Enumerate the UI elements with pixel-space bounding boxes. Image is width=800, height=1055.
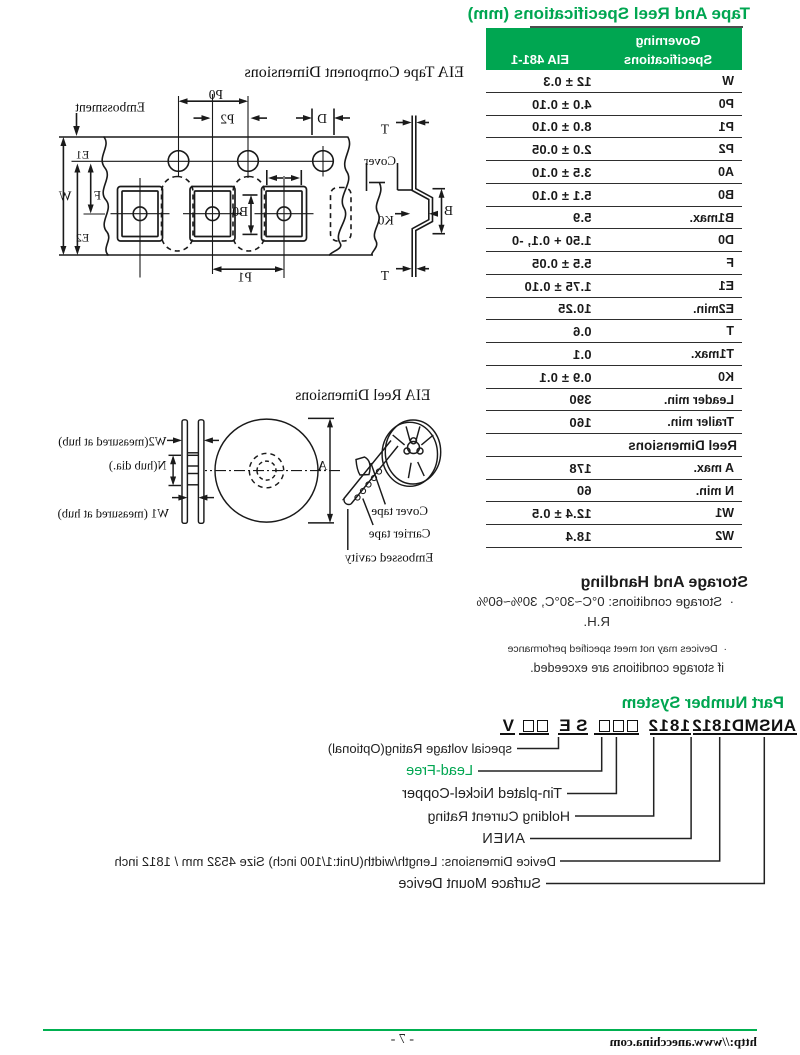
row Reel Dimensions section bbox=[486, 434, 742, 457]
svg-text:T: T bbox=[380, 122, 389, 137]
wire device dimensions bbox=[560, 737, 720, 861]
tape figure bbox=[25, 84, 470, 300]
row P2 bbox=[486, 138, 742, 161]
svg-text:E2: E2 bbox=[76, 231, 89, 245]
part number group ANSMD1812 bbox=[692, 716, 796, 736]
storage and handling heading bbox=[581, 574, 748, 592]
pocket 2 (x 587.5) bbox=[190, 187, 235, 242]
storage line 3 bbox=[508, 643, 727, 655]
wire special voltage bbox=[517, 737, 559, 749]
label lead-free bbox=[406, 763, 473, 779]
dashed stadium 1 bbox=[233, 177, 265, 252]
row P1 bbox=[486, 116, 742, 139]
wire lead-free bbox=[478, 737, 602, 771]
torn piece left edge bbox=[372, 183, 381, 255]
label tin-plated bbox=[402, 786, 562, 802]
part number group 1812 bbox=[647, 716, 690, 736]
sprocket centerline bbox=[72, 160, 335, 162]
svg-text:Cover tape: Cover tape bbox=[371, 503, 428, 518]
footer page number bbox=[391, 1032, 414, 1048]
label device dimensions bbox=[114, 854, 556, 869]
svg-text:Carrier tape: Carrier tape bbox=[369, 526, 431, 541]
reel figure bbox=[40, 400, 460, 572]
svg-text:B: B bbox=[444, 203, 453, 218]
pocket centerline extension bbox=[84, 213, 106, 215]
storage line 2 bbox=[583, 614, 610, 629]
peeled cover tape flap bbox=[356, 457, 370, 475]
dimension D ticks bbox=[333, 109, 335, 136]
reel figure caption bbox=[295, 387, 430, 405]
row W2 bbox=[486, 525, 742, 548]
svg-text:P1: P1 bbox=[238, 270, 252, 285]
hub center lines bbox=[187, 465, 198, 467]
center dash-dot line bbox=[205, 470, 340, 472]
row W1 bbox=[486, 502, 742, 525]
tape band cavities bbox=[371, 475, 376, 480]
row K0 bbox=[486, 366, 742, 389]
row A0 bbox=[486, 161, 742, 184]
reel front circle bbox=[215, 419, 318, 522]
3d reel spoke lines bbox=[393, 435, 405, 445]
pocket 3 (x 660) bbox=[118, 187, 163, 242]
row B0 bbox=[486, 184, 742, 207]
A extension lines bbox=[308, 417, 334, 419]
storage line 1 bbox=[476, 594, 734, 609]
row W bbox=[486, 70, 742, 93]
tape top edge bbox=[103, 136, 348, 138]
dimension B0 bbox=[250, 198, 252, 233]
spec table bbox=[486, 28, 742, 548]
row Trailer min bbox=[486, 411, 742, 434]
tape band cover line bbox=[343, 443, 390, 500]
dashed stadium 2 bbox=[162, 177, 194, 252]
tape left tear edge bbox=[329, 137, 350, 256]
part number group V bbox=[503, 716, 514, 736]
dimension F bbox=[90, 166, 92, 211]
svg-text:K0: K0 bbox=[378, 213, 394, 228]
part number connector lines bbox=[320, 700, 800, 900]
T bottom arrows bbox=[419, 268, 429, 270]
svg-text:E1: E1 bbox=[76, 147, 89, 161]
torn piece top edge bbox=[369, 182, 385, 184]
dimension A0 ticks bbox=[300, 170, 302, 185]
cross-section outer wall bbox=[416, 137, 433, 257]
footer url bbox=[610, 1034, 757, 1050]
W extension lines bbox=[59, 136, 103, 138]
pocket 2 long centerline bbox=[212, 94, 214, 274]
3d reel hub clover bbox=[408, 442, 420, 454]
W2 arrows bbox=[207, 439, 220, 441]
tape right jagged edge bbox=[102, 137, 109, 256]
leader cover tape bbox=[371, 463, 385, 504]
svg-text:W2(measured at hub): W2(measured at hub) bbox=[58, 435, 166, 449]
row F bbox=[486, 252, 742, 275]
dimension D arrows bbox=[337, 117, 351, 119]
wire tin-plated bbox=[567, 737, 616, 794]
part number group SE bbox=[554, 716, 588, 736]
side view flange 1 bbox=[198, 420, 204, 524]
sprocket hole 1 bbox=[313, 151, 334, 172]
T bottom ticks bbox=[415, 256, 417, 277]
svg-text:A: A bbox=[317, 459, 328, 474]
row Leader min bbox=[486, 389, 742, 412]
dashed partial pocket on torn piece bbox=[331, 188, 352, 242]
row B1max bbox=[486, 207, 742, 230]
leader carrier tape bbox=[363, 499, 373, 526]
tape figure caption bbox=[245, 64, 464, 82]
title underline bbox=[530, 26, 743, 28]
svg-text:Embossment: Embossment bbox=[75, 100, 145, 115]
wire surface mount bbox=[546, 737, 764, 884]
tape band end cap bbox=[344, 499, 351, 505]
row T bbox=[486, 320, 742, 343]
part number group box2 bbox=[523, 720, 549, 733]
dimension A bbox=[329, 421, 331, 521]
dimension P1 bbox=[215, 268, 283, 270]
embossment arrow bbox=[76, 113, 78, 128]
svg-text:Embossed cavity: Embossed cavity bbox=[344, 550, 433, 565]
label special voltage bbox=[328, 741, 512, 756]
svg-text:B0: B0 bbox=[232, 204, 248, 219]
tape band edge top bbox=[344, 441, 391, 499]
dimension K0 arrows bbox=[395, 213, 408, 215]
dimension P0 bbox=[181, 100, 247, 102]
svg-text:W: W bbox=[59, 189, 72, 204]
tape band edge bottom bbox=[351, 446, 398, 504]
svg-text:Cover: Cover bbox=[364, 153, 396, 168]
row P0 bbox=[486, 93, 742, 116]
pocket 1 (x 516) bbox=[262, 187, 307, 242]
label holding current bbox=[428, 808, 570, 824]
row E2min bbox=[486, 298, 742, 321]
label surface mount bbox=[398, 876, 541, 892]
dimension B bbox=[433, 188, 446, 190]
hub top lines bbox=[187, 452, 198, 454]
T top arrows bbox=[419, 122, 429, 124]
label anen bbox=[482, 831, 526, 847]
hub bottom line bbox=[187, 484, 198, 486]
wire anen bbox=[530, 737, 691, 839]
page title: Tape And Reel Specifications (mm) bbox=[468, 4, 750, 24]
W1 arrows bbox=[201, 497, 214, 499]
svg-text:F: F bbox=[94, 189, 101, 203]
dimension N bbox=[172, 458, 174, 484]
svg-text:D: D bbox=[317, 111, 327, 126]
wire holding current bbox=[575, 737, 654, 816]
cover bracket bbox=[397, 163, 399, 190]
row T1max bbox=[486, 343, 742, 366]
part number group boxes bbox=[599, 720, 639, 733]
dimension E2 bbox=[76, 166, 78, 253]
side view flange 2 bbox=[182, 420, 187, 524]
svg-text:P0: P0 bbox=[208, 87, 223, 102]
row E1 bbox=[486, 275, 742, 298]
row D0 bbox=[486, 229, 742, 252]
dimension W bbox=[62, 140, 64, 253]
T top ticks bbox=[415, 116, 417, 137]
footer green line bbox=[43, 1029, 757, 1031]
svg-text:W1 (measured at hub): W1 (measured at hub) bbox=[58, 507, 169, 521]
3d reel rim bbox=[385, 420, 440, 484]
hub dashed circle bbox=[249, 453, 283, 487]
sprocket hole 3 bbox=[168, 151, 189, 172]
table header bbox=[486, 28, 742, 70]
sprocket hole 2 bbox=[238, 151, 259, 172]
cross-section inner wall bbox=[412, 137, 429, 257]
3d reel rim depth bbox=[382, 422, 437, 486]
tape bottom edge bbox=[106, 254, 373, 256]
svg-text:P2: P2 bbox=[220, 112, 234, 127]
leader embossed cavity bbox=[347, 509, 349, 550]
row N min bbox=[486, 480, 742, 503]
svg-text:T: T bbox=[380, 268, 389, 283]
hub inner dashed circle bbox=[257, 461, 276, 480]
N extension lines bbox=[169, 454, 182, 456]
dimension P2 bbox=[254, 117, 268, 119]
cover right tick bbox=[366, 163, 368, 191]
svg-text:N(hub dia.): N(hub dia.) bbox=[109, 459, 167, 473]
row A max bbox=[486, 457, 742, 480]
part number system heading bbox=[622, 694, 784, 713]
storage line 4 bbox=[530, 661, 724, 675]
